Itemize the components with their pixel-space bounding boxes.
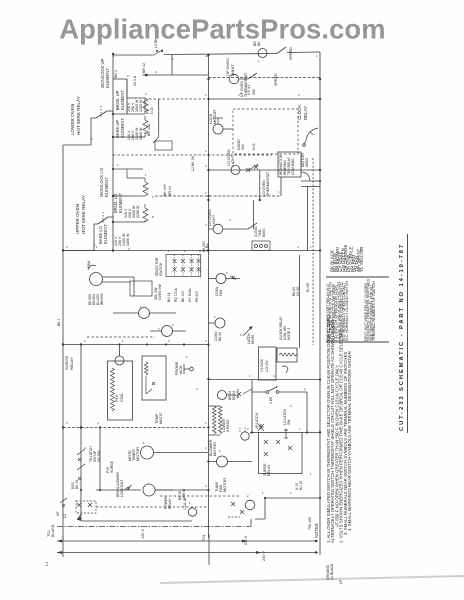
svg-text:LIGHT: LIGHT: [212, 214, 216, 226]
switch: latch diagonal: [243, 327, 252, 337]
svg-text:SWITCH: SWITCH: [159, 262, 163, 276]
svg-text:BROIL/LOWER: BROIL/LOWER: [116, 472, 120, 497]
svg-text:LO OVEN: LO OVEN: [227, 149, 231, 166]
svg-text:BR 42: BR 42: [142, 63, 146, 73]
wire: y=490 row: [96, 489, 209, 491]
circle: lower timer motor: [143, 484, 155, 496]
svg-text:2: 2: [91, 137, 93, 141]
svg-text:THERMOSTAT: THERMOSTAT: [266, 171, 270, 196]
svg-text:LOCKOUT: LOCKOUT: [120, 479, 124, 497]
box: lower clock: [258, 347, 276, 380]
wire: probe jack: [184, 364, 190, 374]
svg-text:2250 W: 2250 W: [136, 205, 140, 218]
svg-text:2: 2: [290, 404, 292, 408]
title underline: [407, 234, 409, 433]
svg-text:SW UP: SW UP: [93, 450, 97, 462]
wire: vertical x=100: [99, 428, 101, 491]
svg-text:1: 1: [262, 491, 264, 495]
svg-text:BK 44A: BK 44A: [147, 123, 151, 136]
svg-text:LO OVEN: LO OVEN: [262, 180, 266, 196]
svg-text:UP OVEN: UP OVEN: [240, 80, 244, 97]
svg-text:SURGE: SURGE: [263, 463, 267, 476]
contact on left border bottom: [60, 498, 67, 507]
switch: lo oven light: [248, 223, 257, 229]
svg-text:2: 2: [97, 421, 99, 425]
svg-text:MOTE: MOTE: [128, 450, 132, 461]
wire: blower heater element: [209, 405, 214, 407]
wire: left border L2: [62, 145, 64, 541]
wire: main bus x=208.5: [208, 55, 210, 538]
svg-text:RELAY: RELAY: [69, 357, 74, 370]
svg-text:1: 1: [278, 190, 280, 194]
wire: thermostat row y=99: [149, 98, 209, 100]
svg-text:2: 2: [205, 446, 207, 450]
svg-text:BK 80: BK 80: [218, 332, 222, 341]
svg-text:OVEN SW: OVEN SW: [158, 284, 162, 300]
svg-text:1: 1: [143, 441, 145, 445]
circle: relay contact small: [218, 391, 227, 400]
svg-text:ELEMENT: ELEMENT: [120, 118, 125, 138]
circle: lock motor upper: [213, 124, 223, 134]
svg-text:BK 1: BK 1: [57, 319, 61, 326]
svg-text:TER RELAY: TER RELAY: [287, 156, 291, 175]
wire: row y=379.6: [209, 379, 321, 381]
svg-text:2: 2: [84, 339, 86, 343]
svg-text:MOTOR: MOTOR: [213, 110, 217, 124]
wire: row y=432.5: [250, 432, 320, 434]
svg-text:TEMP: TEMP: [155, 413, 159, 424]
circle: tube fan motor: [188, 508, 196, 516]
svg-text:N.O.: N.O.: [150, 107, 154, 114]
svg-text:TS1: TS1: [47, 530, 51, 537]
svg-text:4 BK: 4 BK: [269, 396, 273, 404]
wire: upper oven relay step: [63, 224, 98, 251]
svg-text:CLEAN: CLEAN: [254, 226, 258, 237]
svg-text:ELEMENT: ELEMENT: [103, 224, 108, 244]
wire: bottom right step: [255, 498, 320, 519]
svg-text:RD 100A: RD 100A: [174, 288, 178, 302]
wire: up oven light switch: [239, 73, 257, 79]
wire: main bus x=320: [319, 52, 321, 555]
svg-text:MON/LOCK LO: MON/LOCK LO: [99, 167, 104, 197]
svg-text:DSS: DSS: [71, 481, 75, 489]
wire: bottom border dash-dot: [57, 526, 251, 528]
svg-text:2: 2: [290, 491, 292, 495]
svg-text:RELAY: RELAY: [303, 106, 308, 120]
svg-text:L2 BK 36: L2 BK 36: [191, 156, 195, 171]
svg-text:1: 1: [299, 427, 301, 431]
dimension line 240V: [57, 552, 318, 554]
wire: main bus x=113: [112, 54, 114, 251]
svg-text:1: 1: [189, 501, 191, 505]
box: door lock switch group: [233, 109, 298, 154]
svg-text:N.O.: N.O.: [252, 143, 256, 150]
svg-text:HOT WIRE RELAY: HOT WIRE RELAY: [81, 195, 86, 234]
svg-text:2: 2: [196, 387, 198, 391]
svg-text:2: 2: [117, 163, 119, 167]
svg-text:208 V: 208 V: [128, 208, 132, 218]
svg-text:FAN: FAN: [219, 484, 223, 492]
svg-text:3000 W: 3000 W: [135, 99, 139, 112]
wire: contact row y=392: [252, 392, 307, 433]
svg-text:JACK: JACK: [179, 365, 183, 375]
svg-text:THERMOSTAT: THERMOSTAT: [244, 72, 248, 97]
svg-text:BLOWER: BLOWER: [209, 439, 213, 456]
svg-text:POWER: POWER: [164, 496, 168, 509]
dimension line 120V: [57, 540, 318, 542]
svg-text:1800 W: 1800 W: [126, 233, 130, 246]
surge relay box: [259, 433, 303, 474]
svg-text:1: 1: [205, 421, 207, 425]
wire: dashed y=337: [87, 336, 155, 338]
svg-text:ELEMENT: ELEMENT: [104, 177, 109, 197]
svg-text:SURGE: SURGE: [110, 460, 114, 473]
resistor: broil lo element: [143, 182, 148, 196]
svg-text:1: 1: [122, 339, 124, 343]
svg-text:OV SW: OV SW: [97, 450, 101, 462]
svg-text:3000 W: 3000 W: [132, 205, 136, 218]
circle: lower right small motor: [245, 500, 255, 510]
svg-text:RED/MOTOR: RED/MOTOR: [279, 154, 283, 175]
svg-text:6: 6: [152, 195, 154, 199]
svg-text:P1: P1: [146, 110, 150, 114]
svg-text:2400 W: 2400 W: [135, 127, 139, 140]
svg-text:LOWER: LOWER: [222, 418, 226, 432]
circle: conv fan motor: [90, 273, 103, 286]
svg-text:BK 80: BK 80: [292, 287, 296, 296]
svg-text:5: 5: [240, 333, 242, 337]
svg-text:1: 1: [258, 59, 260, 63]
svg-text:4. SMALL MARKINGS NEAR SWITCH: 4. SMALL MARKINGS NEAR SWITCH SYMBOLS AR…: [347, 351, 352, 531]
wire: mid bus y=250.5: [63, 250, 320, 252]
svg-text:L1: L1: [45, 562, 49, 566]
svg-text:GD V: GD V: [244, 535, 248, 545]
svg-text:4: 4: [168, 339, 170, 343]
svg-text:P19: P19: [114, 394, 119, 402]
wire: section divider dashed: [113, 154, 272, 156]
svg-text:T8 LATCH: T8 LATCH: [89, 446, 93, 462]
circle: up oven light: [229, 74, 239, 84]
wire: inner vertical x=127 upper oven: [126, 79, 128, 114]
svg-text:BR: BR: [253, 41, 257, 46]
relay contact (lower oven hot wire relay): [96, 111, 107, 118]
svg-text:FAN: FAN: [87, 260, 91, 268]
wire: dashed vertical x=313: [312, 158, 314, 345]
temp-matic innards: [145, 362, 156, 394]
svg-text:BK 44Y: BK 44Y: [163, 183, 167, 196]
svg-text:6: 6: [262, 425, 264, 429]
selector contacts: [175, 255, 199, 276]
legend separator lines: [326, 276, 389, 278]
svg-text:2: 2: [158, 327, 160, 331]
wire: light2 stem: [209, 228, 214, 230]
svg-text:2: 2: [304, 387, 306, 391]
svg-text:208 V: 208 V: [118, 236, 122, 246]
wire: dashed row y=196: [155, 195, 281, 197]
svg-text:RD 34: RD 34: [232, 390, 236, 400]
svg-text:2: 2: [297, 245, 299, 249]
circle: lo oven light: [213, 224, 223, 234]
switch on top bus left: [154, 50, 163, 56]
relay contact (upper oven hot wire relay): [98, 217, 108, 224]
svg-text:2: 2: [219, 449, 221, 453]
box: clock motor winding: [278, 152, 301, 177]
svg-text:BU 14: BU 14: [167, 292, 171, 302]
box: fan switch block: [130, 281, 152, 296]
wire: y=521 row: [81, 520, 192, 522]
svg-text:208 V: 208 V: [131, 102, 135, 112]
wire: lower oven relay step: [63, 118, 96, 145]
svg-text:MOTOR: MOTOR: [213, 442, 217, 456]
svg-text:SPEED: SPEED: [274, 73, 278, 86]
svg-text:2: 2: [66, 245, 68, 249]
svg-text:BAKE LO: BAKE LO: [98, 225, 103, 244]
wire: blower motor row: [209, 461, 253, 463]
svg-text:COM WDG: COM WDG: [291, 158, 295, 175]
svg-text:CLOCK RELAY: CLOCK RELAY: [279, 316, 283, 340]
circle: pilot lamp top: [258, 49, 267, 58]
svg-text:UP OVEN: UP OVEN: [225, 58, 230, 76]
svg-text:CLOCK: CLOCK: [260, 358, 264, 372]
box: P19 coil: [108, 361, 133, 420]
svg-text:CUT-233 SCHEMATIC - PART NO 14: CUT-233 SCHEMATIC - PART NO 14-10-787: [399, 243, 405, 431]
svg-text:AppliancePartsPros.com: AppliancePartsPros.com: [59, 14, 385, 45]
circle: blower motor: [217, 456, 228, 467]
tick TS1: [208, 534, 210, 565]
wire: row y=75 with left arrow: [143, 74, 209, 76]
svg-text:LOCK: LOCK: [209, 113, 213, 124]
svg-text:LOWER OVEN: LOWER OVEN: [70, 104, 75, 135]
svg-text:3: 3: [145, 92, 147, 96]
contact o-o on y=392: [266, 391, 269, 394]
wire: row y=170 circle: [231, 166, 240, 175]
svg-text:NOTES:: NOTES:: [314, 522, 319, 538]
wire: lo oven light branch: [223, 228, 248, 230]
svg-text:4: 4: [199, 249, 201, 253]
latch sw contacts lower: [258, 424, 288, 438]
svg-text:1: 1: [249, 374, 251, 378]
notes block 2: [326, 315, 352, 543]
svg-text:BK 100: BK 100: [181, 291, 185, 302]
svg-text:BR 34: BR 34: [228, 391, 232, 400]
svg-text:BROIL LO: BROIL LO: [113, 193, 118, 213]
svg-text:SEL SW: SEL SW: [154, 287, 158, 300]
resistor: bake lo element: [143, 208, 148, 222]
svg-text:LATCH: LATCH: [247, 333, 251, 344]
svg-text:MT: MT: [56, 511, 60, 516]
svg-text:WINDING: WINDING: [283, 160, 287, 175]
arrow L2 bottom: [78, 514, 82, 520]
svg-text:2: 2: [247, 494, 249, 498]
svg-text:MON/LOCK UP: MON/LOCK UP: [100, 58, 105, 88]
svg-text:CONV: CONV: [214, 331, 218, 341]
svg-text:MOTOR: MOTOR: [301, 153, 305, 167]
wire: broil element row upper: [113, 113, 143, 115]
circle: motor timer: [141, 446, 154, 459]
svg-text:4: 4: [205, 149, 207, 153]
wire: dashed row y=427.5: [63, 427, 209, 429]
svg-text:4: 4: [257, 164, 259, 168]
svg-text:BK 16: BK 16: [178, 491, 182, 500]
wire: dashes near bottom: [228, 516, 240, 518]
svg-text:2400 W: 2400 W: [122, 233, 126, 246]
svg-text:DOOR: DOOR: [237, 139, 241, 150]
wire: vertical x=253.5: [253, 200, 255, 229]
svg-text:120 V: 120 V: [141, 529, 145, 539]
svg-text:SW: SW: [241, 144, 245, 150]
contact on lockout line: [124, 485, 132, 490]
svg-text:COIL 480: COIL 480: [283, 325, 287, 340]
svg-text:COIL: COIL: [119, 392, 124, 402]
box: temp-matic: [142, 356, 166, 400]
svg-text:GROUND: GROUND: [326, 564, 330, 580]
svg-text:GY 603A: GY 603A: [188, 288, 192, 302]
scan streak bottom: [160, 576, 464, 583]
wire: L1 top bus (vertical in scan): [113, 52, 320, 55]
resistor: broil up element: [127, 79, 145, 114]
wire: vertical x=259.75: [259, 170, 261, 200]
svg-text:ELEMENT: ELEMENT: [120, 90, 125, 110]
svg-text:1: 1: [310, 245, 312, 249]
svg-text:1: 1: [145, 173, 147, 177]
svg-text:ELEMENT: ELEMENT: [118, 193, 123, 213]
svg-text:1: 1: [172, 57, 174, 61]
svg-text:RELAY: RELAY: [267, 464, 271, 476]
svg-text:BK 15: BK 15: [75, 480, 79, 489]
circle: cooling fan motor: [241, 432, 249, 440]
svg-text:N 15: N 15: [295, 483, 299, 490]
wire: P19 coil feed: [119, 346, 121, 357]
svg-text:2250 W: 2250 W: [139, 99, 143, 112]
svg-text:4: 4: [66, 421, 68, 425]
wire: dashed y=507: [96, 506, 208, 508]
svg-text:2: 2: [298, 93, 300, 97]
svg-text:NOTE 3: NOTE 3: [287, 328, 291, 340]
svg-text:BR 4: BR 4: [114, 70, 118, 78]
svg-text:PK 600: PK 600: [195, 291, 199, 302]
svg-text:3: 3: [276, 385, 278, 389]
svg-text:TUBE: TUBE: [206, 242, 210, 252]
svg-text:BLACK: BLACK: [51, 524, 55, 537]
box: terminal block on mid bus: [252, 241, 270, 251]
contact marks on x=81: [77, 449, 85, 480]
svg-text:HOT WIRE RELAY: HOT WIRE RELAY: [76, 96, 81, 135]
coil zigzag inside P19: [111, 368, 115, 411]
svg-text:BR 44: BR 44: [168, 186, 172, 196]
switch on top bus right: [277, 47, 286, 54]
svg-text:1 CA 1A: 1 CA 1A: [183, 497, 187, 510]
svg-text:4: 4: [229, 218, 231, 222]
wire: lock motor row y=170: [209, 169, 321, 171]
wire: vertical x=81: [80, 345, 82, 522]
svg-text:1: 1: [310, 472, 312, 476]
selector bank box: [166, 255, 201, 277]
svg-text:SPEED: SPEED: [289, 47, 293, 60]
svg-text:2: 2: [205, 339, 207, 343]
svg-text:8 PASS: 8 PASS: [226, 419, 230, 432]
circle: small comp x144: [139, 308, 150, 319]
svg-text:L1 BK: L1 BK: [154, 38, 158, 48]
svg-text:L2: L2: [63, 514, 67, 518]
svg-text:BAKE UP: BAKE UP: [115, 120, 120, 138]
svg-text:BK 34: BK 34: [236, 389, 240, 398]
svg-text:TIMER: TIMER: [132, 449, 136, 461]
svg-text:TS1: TS1: [202, 534, 206, 541]
svg-text:YL YELLOW: YL YELLOW: [359, 246, 364, 272]
surge relay contacts: [264, 440, 292, 456]
svg-text:RD 80: RD 80: [251, 334, 255, 344]
svg-text:WH 602: WH 602: [100, 293, 104, 305]
contact right of lock motor lower: [230, 276, 236, 280]
svg-text:2: 2: [316, 54, 318, 58]
box: clock relay coil: [277, 348, 297, 362]
svg-text:UPPER OVEN: UPPER OVEN: [75, 204, 80, 234]
svg-text:1: 1: [168, 249, 170, 253]
svg-text:1800 W: 1800 W: [139, 127, 143, 140]
svg-text:2: 2: [214, 315, 216, 319]
svg-text:240 V: 240 V: [262, 551, 266, 561]
wire: vertical x=307.5: [307, 187, 309, 251]
wire: dashes y=496: [160, 495, 240, 497]
circle: conv motor x220: [215, 318, 225, 328]
svg-text:2: 2: [205, 191, 207, 195]
svg-text:1: 1: [205, 93, 207, 97]
svg-text:SURGE: SURGE: [64, 355, 69, 370]
svg-text:4: 4: [172, 323, 174, 327]
svg-text:TUBE: TUBE: [215, 481, 219, 492]
wire: lower oven section top: [113, 168, 143, 170]
svg-text:MOTOR: MOTOR: [136, 447, 140, 461]
svg-text:MATIC: MATIC: [159, 412, 163, 424]
svg-text:L1: L1: [205, 54, 209, 58]
svg-text:2: 2: [247, 427, 249, 431]
svg-text:CLOCK: CLOCK: [297, 105, 302, 120]
svg-text:240 V: 240 V: [114, 236, 118, 246]
svg-text:BU 15: BU 15: [299, 481, 303, 490]
svg-text:1: 1: [186, 355, 188, 359]
svg-text:LO LATCH: LO LATCH: [283, 409, 287, 425]
svg-text:20 1 A: 20 1 A: [133, 75, 137, 86]
svg-text:8: 8: [152, 215, 154, 219]
svg-text:BAKE: BAKE: [262, 228, 266, 237]
svg-text:ELEMENT: ELEMENT: [105, 68, 110, 88]
svg-text:P19: P19: [106, 467, 110, 473]
contacts right of lo light: [246, 164, 258, 172]
svg-text:4: 4: [84, 446, 86, 450]
svg-text:GY 80: GY 80: [296, 287, 300, 296]
svg-text:3: 3: [226, 271, 228, 275]
clock relay armature curve: [305, 128, 319, 144]
svg-text:RD 604: RD 604: [92, 294, 96, 305]
svg-text:CONV: CONV: [215, 286, 219, 296]
svg-text:BU 603: BU 603: [96, 294, 100, 305]
svg-text:SELECTOR: SELECTOR: [155, 257, 159, 276]
svg-text:4: 4: [273, 374, 275, 378]
svg-text:WDG: WDG: [305, 158, 309, 167]
svg-text:240 V: 240 V: [124, 208, 128, 218]
svg-text:750 400: 750 400: [308, 517, 312, 530]
svg-text:240 V: 240 V: [127, 102, 131, 112]
svg-text:TERMINAL NUMBERS OF SWITCH: TERMINAL NUMBERS OF SWITCH: [372, 281, 376, 341]
wire: y=344.5 lower section: [63, 344, 209, 346]
clock hook symbol: [282, 366, 288, 373]
svg-text:4: 4: [205, 484, 207, 488]
svg-text:240 V: 240 V: [127, 130, 131, 140]
svg-text:LO OVEN: LO OVEN: [208, 209, 212, 226]
svg-text:FAN: FAN: [219, 289, 223, 296]
contact X at 239,394: [227, 392, 242, 396]
svg-text:LO OV: LO OV: [265, 360, 269, 372]
